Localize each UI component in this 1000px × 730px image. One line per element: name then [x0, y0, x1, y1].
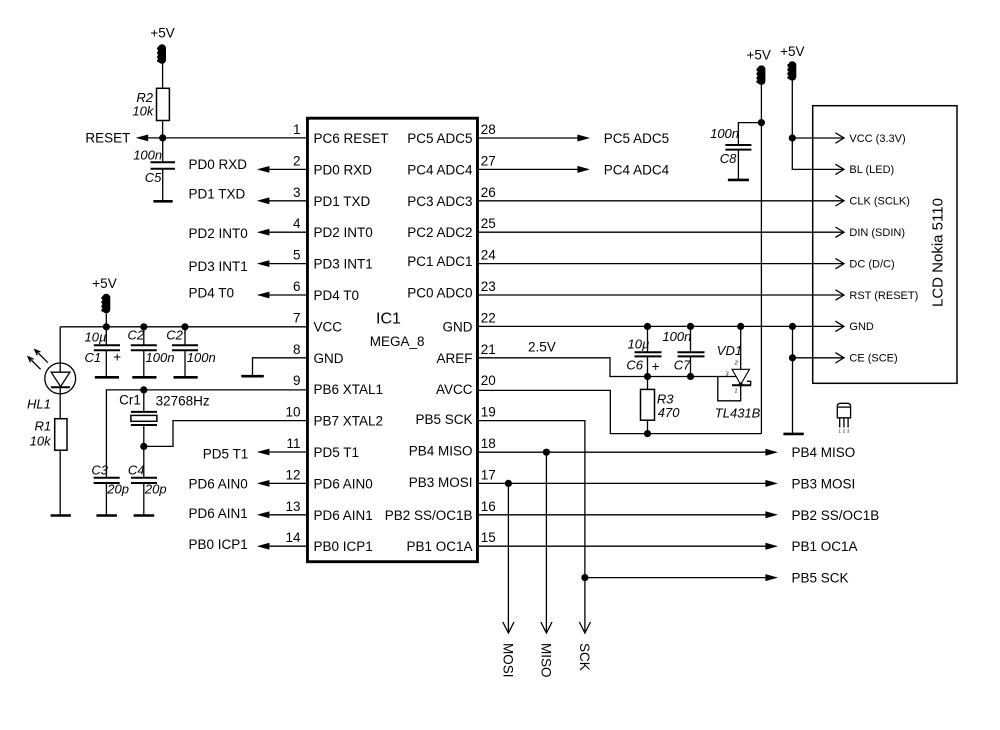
- svg-text:PD4 T0: PD4 T0: [189, 286, 235, 301]
- svg-text:16: 16: [481, 499, 496, 514]
- capacitor C2' 100n: [166, 327, 215, 378]
- junction C7 bottom: [687, 373, 694, 380]
- svg-text:RESET: RESET: [85, 131, 130, 146]
- junction LCD GND: [789, 323, 796, 330]
- svg-text:2: 2: [734, 361, 738, 367]
- svg-text:26: 26: [481, 185, 496, 200]
- resistor R1 10k: [30, 419, 67, 451]
- svg-text:Cr1: Cr1: [119, 392, 141, 407]
- svg-text:12: 12: [285, 467, 300, 482]
- node PD4 T0: [189, 286, 270, 301]
- svg-text:PC1 ADC1: PC1 ADC1: [407, 254, 472, 269]
- transistor Q1 : VD1 TL431B shunt reference: [715, 326, 761, 420]
- svg-text:CLK (SCLK): CLK (SCLK): [849, 196, 910, 208]
- svg-text:VCC: VCC: [314, 319, 343, 334]
- svg-text:1: 1: [734, 389, 737, 395]
- svg-text:23: 23: [481, 279, 496, 294]
- svg-text:LCD Nokia 5110: LCD Nokia 5110: [930, 198, 947, 307]
- svg-text:100n: 100n: [187, 350, 216, 365]
- wire LED to R1: [59, 394, 61, 419]
- wire MISO down: [545, 452, 547, 633]
- svg-text:PB1 OC1A: PB1 OC1A: [406, 539, 472, 554]
- node PC4 ADC4: [577, 162, 669, 177]
- junction LCD VCC: [789, 134, 796, 141]
- svg-text:100n: 100n: [133, 148, 162, 163]
- junction VD1 cathode: [737, 323, 744, 330]
- pin DC (D/C): [835, 258, 894, 270]
- svg-text:27: 27: [481, 153, 496, 168]
- svg-text:9: 9: [293, 373, 301, 388]
- wire pin 20 AVCC to +5V rail: [478, 390, 762, 433]
- node PB1 OC1A: [765, 539, 857, 554]
- crystal Cr1 32768Hz: [119, 390, 210, 447]
- svg-text:PD5 T1: PD5 T1: [314, 445, 360, 460]
- svg-text:24: 24: [481, 248, 497, 263]
- node MOSI (down arrow): [501, 622, 516, 678]
- wire pin 4: [269, 231, 308, 233]
- power +5V (LCD supply): [780, 44, 804, 81]
- svg-text:+5V: +5V: [780, 44, 804, 59]
- resistor R3 470: [641, 377, 681, 434]
- svg-text:+5V: +5V: [150, 25, 174, 40]
- svg-text:PB3 MOSI: PB3 MOSI: [792, 476, 856, 491]
- wire pin 23 RST: [478, 294, 845, 296]
- wire +5V to VCC rail: [105, 313, 107, 327]
- node PB3 MOSI: [765, 476, 855, 491]
- pin GND: [835, 321, 874, 333]
- svg-text:11: 11: [286, 436, 300, 451]
- svg-text:PB1 OC1A: PB1 OC1A: [792, 539, 858, 554]
- svg-text:CE (SCE): CE (SCE): [849, 353, 897, 365]
- svg-text:C2: C2: [128, 328, 145, 343]
- node PD3 INT1: [189, 259, 270, 274]
- svg-text:470: 470: [658, 405, 680, 420]
- svg-text:C6: C6: [626, 358, 643, 373]
- ground (C1): [95, 376, 119, 379]
- wire R1 to ground: [59, 450, 61, 515]
- svg-text:PD2 INT0: PD2 INT0: [189, 226, 248, 241]
- node MISO (down arrow): [539, 622, 554, 678]
- svg-text:100n: 100n: [662, 329, 691, 344]
- svg-text:PC3 ADC3: PC3 ADC3: [407, 194, 472, 209]
- svg-text:PC0 ADC0: PC0 ADC0: [407, 285, 472, 300]
- junction C2: [140, 323, 147, 330]
- svg-text:PC4 ADC4: PC4 ADC4: [407, 162, 473, 177]
- svg-text:DIN (SDIN): DIN (SDIN): [849, 227, 905, 239]
- svg-text:+: +: [113, 350, 121, 365]
- wire IC pin 9 XTAL1: [106, 390, 308, 478]
- resistor R2: [132, 88, 169, 120]
- svg-text:4: 4: [293, 216, 301, 231]
- svg-text:22: 22: [481, 310, 496, 325]
- node PD0 RXD: [189, 157, 270, 173]
- svg-text:VD1: VD1: [717, 343, 742, 358]
- node PB2 SS/OC1B: [765, 508, 879, 523]
- svg-text:HL1: HL1: [27, 397, 51, 412]
- node PD6 AIN1: [189, 506, 270, 521]
- svg-text:PD0 RXD: PD0 RXD: [189, 157, 248, 172]
- wire pin 22 GND rail: [478, 325, 845, 327]
- junction C1: [103, 323, 110, 330]
- svg-text:AVCC: AVCC: [436, 382, 473, 397]
- svg-text:6: 6: [293, 279, 301, 294]
- svg-text:PB6 XTAL1: PB6 XTAL1: [314, 382, 384, 397]
- svg-text:RST (RESET): RST (RESET): [849, 290, 918, 302]
- wire R2 to RESET node: [162, 121, 164, 138]
- wire +5V to LCD VCC/BL: [792, 81, 844, 170]
- svg-text:PB0 ICP1: PB0 ICP1: [189, 537, 248, 552]
- wire pin 17 PB3 MOSI: [478, 482, 766, 484]
- junction R3 bottom: [644, 430, 651, 437]
- svg-text:10µ: 10µ: [85, 329, 107, 344]
- op-amp U1 : IC1 MEGA_8 body: [307, 118, 477, 562]
- svg-text:10: 10: [285, 405, 300, 420]
- junction C6 top: [644, 323, 651, 330]
- wire pin 19 PB5 SCK down: [478, 421, 585, 633]
- junction C8: [758, 119, 765, 126]
- svg-text:100n: 100n: [146, 350, 175, 365]
- svg-text:+5V: +5V: [92, 276, 116, 291]
- svg-text:PD4 T0: PD4 T0: [314, 288, 360, 303]
- svg-text:GND: GND: [443, 319, 473, 334]
- svg-text:14: 14: [285, 530, 301, 545]
- wire pin 13: [269, 514, 308, 516]
- svg-text:PC4 ADC4: PC4 ADC4: [604, 162, 670, 177]
- wire pin 11: [269, 451, 308, 453]
- svg-text:PB7 XTAL2: PB7 XTAL2: [314, 414, 384, 429]
- pin CLK (SCLK): [835, 196, 910, 208]
- node SCK (down arrow): [577, 622, 592, 671]
- wire to LCD VCC pin: [792, 137, 844, 139]
- junction crystal top: [140, 386, 147, 393]
- svg-text:C7: C7: [674, 358, 691, 373]
- svg-text:2: 2: [293, 153, 301, 168]
- ground (C5): [153, 200, 172, 203]
- svg-text:19: 19: [481, 405, 496, 420]
- svg-text:20: 20: [481, 373, 496, 388]
- transistor Q2 : TO-92 package outline: [837, 403, 850, 433]
- LCD module box: [813, 106, 957, 384]
- wire pin 14: [269, 545, 308, 547]
- wire pin 27: [478, 168, 578, 170]
- ground (C3): [96, 514, 117, 517]
- svg-text:R1: R1: [34, 419, 51, 434]
- LED HL1: [27, 350, 76, 412]
- svg-text:GND: GND: [314, 351, 344, 366]
- svg-text:21: 21: [481, 342, 496, 357]
- pin RST (RESET): [835, 290, 918, 302]
- svg-text:IC1: IC1: [376, 311, 401, 328]
- wire MOSI down: [507, 483, 509, 633]
- svg-text:32768Hz: 32768Hz: [156, 394, 210, 409]
- wire pin 26 CLK: [478, 200, 845, 202]
- pin DIN (SDIN): [835, 227, 905, 239]
- svg-text:100n: 100n: [710, 126, 739, 141]
- ground (LCD): [783, 433, 803, 436]
- svg-text:PD6 AIN0: PD6 AIN0: [189, 477, 248, 492]
- svg-text:BL (LED): BL (LED): [849, 164, 894, 176]
- svg-text:C4: C4: [128, 462, 145, 477]
- svg-text:10k: 10k: [132, 104, 154, 119]
- junction LCD CE: [789, 354, 796, 361]
- node PD2 INT0: [189, 226, 270, 241]
- svg-text:PB4 MISO: PB4 MISO: [409, 444, 473, 459]
- capacitor C7 100n: [662, 326, 704, 376]
- node PB0 ICP1: [189, 537, 270, 552]
- svg-text:PC5 ADC5: PC5 ADC5: [604, 131, 669, 146]
- power +5V (analog rail): [746, 48, 770, 85]
- wire pin 2: [269, 168, 308, 170]
- svg-text:PD6 AIN1: PD6 AIN1: [314, 508, 373, 523]
- svg-text:PD1 TXD: PD1 TXD: [314, 194, 371, 209]
- node PD6 AIN0: [189, 477, 270, 492]
- svg-text:R3: R3: [657, 391, 674, 406]
- wire VCC rail down to LED: [59, 327, 61, 363]
- junction C7 top: [687, 323, 694, 330]
- svg-text:DC (D/C): DC (D/C): [849, 258, 894, 270]
- capacitor C2 100n: [128, 327, 175, 378]
- svg-text:10k: 10k: [30, 434, 52, 449]
- svg-text:MISO: MISO: [539, 643, 554, 678]
- svg-text:C5: C5: [145, 170, 162, 185]
- svg-text:2.5V: 2.5V: [528, 340, 556, 355]
- wire RESET to IC pin 1: [148, 137, 308, 139]
- svg-text:5: 5: [293, 248, 301, 263]
- wire crystal to IC pin 10 XTAL2: [144, 421, 308, 447]
- junction MOSI: [505, 480, 512, 487]
- capacitor C3 20p: [91, 462, 129, 515]
- svg-text:PB0 ICP1: PB0 ICP1: [314, 539, 373, 554]
- junction MISO: [543, 449, 550, 456]
- svg-text:PD0 RXD: PD0 RXD: [314, 162, 373, 177]
- svg-text:PB2 SS/OC1B: PB2 SS/OC1B: [792, 508, 880, 523]
- svg-text:PB4 MISO: PB4 MISO: [792, 445, 856, 460]
- svg-text:25: 25: [481, 216, 496, 231]
- wire pin 21 AREF to 2.5V rail: [478, 358, 736, 377]
- svg-text:TL431B: TL431B: [715, 406, 761, 421]
- wire VCC rail to IC pin 7: [60, 326, 308, 328]
- svg-text:GND: GND: [849, 321, 874, 333]
- svg-text:C3: C3: [91, 462, 108, 477]
- svg-text:MOSI: MOSI: [501, 643, 516, 678]
- node PD1 TXD: [189, 187, 270, 205]
- ground (C2'): [174, 376, 198, 379]
- capacitor C8 100n: [710, 123, 761, 180]
- wire LCD GND down to ground: [792, 326, 794, 434]
- svg-text:PD2 INT0: PD2 INT0: [314, 225, 373, 240]
- svg-text:PC6 RESET: PC6 RESET: [314, 131, 389, 146]
- svg-text:PB3 MOSI: PB3 MOSI: [409, 475, 473, 490]
- node PC5 ADC5: [577, 131, 669, 146]
- pin VCC (3.3V): [835, 133, 905, 145]
- svg-text:R2: R2: [136, 90, 153, 105]
- svg-text:PC5 ADC5: PC5 ADC5: [407, 131, 472, 146]
- svg-text:PB5 SCK: PB5 SCK: [792, 571, 849, 586]
- node PB5 SCK: [765, 571, 848, 586]
- svg-text:7: 7: [293, 310, 301, 325]
- wire +5V down to AVCC rail: [760, 85, 762, 434]
- wire pin 6: [269, 294, 308, 296]
- node PB4 MISO: [765, 445, 855, 460]
- pin CE (SCE): [835, 353, 897, 365]
- wire pin 24 DC: [478, 263, 845, 265]
- pin BL (LED): [835, 164, 894, 176]
- node PD5 T1: [203, 447, 270, 462]
- junction crystal bottom: [140, 443, 147, 450]
- node RESET: [85, 131, 148, 146]
- svg-text:C2': C2': [166, 328, 186, 343]
- wire pin 16: [478, 514, 766, 516]
- ground (R1): [51, 514, 71, 517]
- svg-text:10µ: 10µ: [628, 336, 650, 351]
- svg-text:17: 17: [481, 467, 496, 482]
- wire pin 12: [269, 482, 308, 484]
- wire pin 3: [269, 200, 308, 202]
- wire pin 18 PB4 MISO: [478, 451, 766, 453]
- power +5V (VCC rail): [92, 276, 116, 313]
- junction C2': [181, 323, 188, 330]
- wire PB5 SCK row: [585, 577, 766, 579]
- svg-text:PD3 INT1: PD3 INT1: [314, 257, 373, 272]
- wire +5V to R2: [162, 62, 164, 89]
- wire pin 25 DIN: [478, 231, 845, 233]
- svg-text:AREF: AREF: [436, 351, 472, 366]
- svg-text:PB5 SCK: PB5 SCK: [415, 412, 472, 427]
- svg-text:+: +: [652, 359, 660, 374]
- capacitor C4 20p: [128, 446, 167, 515]
- svg-text:15: 15: [481, 530, 496, 545]
- svg-text:PD3 INT1: PD3 INT1: [189, 259, 248, 274]
- svg-text:VCC (3.3V): VCC (3.3V): [849, 133, 905, 145]
- capacitor C5 100n: [133, 138, 175, 201]
- svg-text:PC2 ADC2: PC2 ADC2: [407, 225, 472, 240]
- svg-text:PD6 AIN1: PD6 AIN1: [189, 506, 248, 521]
- svg-text:1: 1: [293, 122, 301, 137]
- svg-text:MEGA_8: MEGA_8: [370, 334, 425, 349]
- svg-text:SCK: SCK: [577, 643, 592, 671]
- junction PB5 SCK row: [581, 574, 588, 581]
- ground (C4): [134, 514, 155, 517]
- IC left pin names: [314, 131, 389, 554]
- svg-text:18: 18: [481, 436, 496, 451]
- svg-text:+5V: +5V: [746, 48, 770, 63]
- capacitor C6 10u: [626, 326, 661, 376]
- wire to LCD CE pin: [793, 357, 845, 359]
- svg-text:20p: 20p: [106, 482, 129, 497]
- IC right pin names: [385, 131, 473, 554]
- wire IC pin 8 GND: [253, 358, 309, 376]
- svg-text:PD5 T1: PD5 T1: [203, 447, 249, 462]
- ground (pin 8): [241, 375, 263, 378]
- svg-text:C8: C8: [720, 151, 737, 166]
- power +5V (R2 pull-up supply): [150, 25, 174, 64]
- svg-text:PD1 TXD: PD1 TXD: [189, 187, 246, 202]
- junction RESET: [159, 134, 166, 141]
- svg-text:28: 28: [481, 122, 496, 137]
- junction C6 bottom: [644, 373, 651, 380]
- svg-text:PD6 AIN0: PD6 AIN0: [314, 476, 373, 491]
- wire pin 15: [478, 545, 766, 547]
- svg-text:C1: C1: [85, 350, 102, 365]
- svg-text:20p: 20p: [144, 482, 167, 497]
- capacitor C1 10u: [85, 327, 122, 378]
- wire pin 28: [478, 137, 578, 139]
- svg-text:PB2 SS/OC1B: PB2 SS/OC1B: [385, 508, 473, 523]
- ground (C2): [132, 376, 156, 379]
- svg-text:8: 8: [293, 342, 301, 357]
- svg-text:3: 3: [293, 185, 301, 200]
- svg-text:13: 13: [285, 499, 300, 514]
- ground (C8): [728, 179, 749, 182]
- wire pin 5: [269, 263, 308, 265]
